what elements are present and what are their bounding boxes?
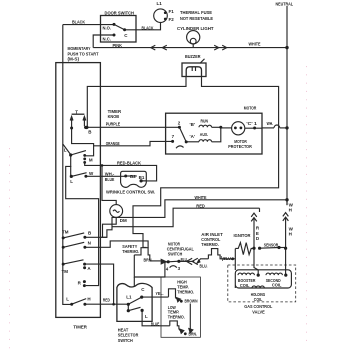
svg-text:THERMO.: THERMO. (177, 289, 194, 294)
svg-text:BLU.: BLU. (223, 256, 232, 261)
svg-text:MOMENTARY: MOMENTARY (68, 46, 91, 51)
svg-text:TM: TM (62, 230, 69, 235)
svg-text:ORANGE: ORANGE (106, 141, 120, 146)
svg-text:L: L (145, 314, 148, 319)
svg-text:BRN.: BRN. (144, 257, 153, 262)
svg-text:THERMAL FUSE: THERMAL FUSE (180, 10, 212, 15)
svg-text:BLACK: BLACK (72, 19, 86, 24)
svg-text:'B': 'B' (190, 122, 195, 127)
svg-text:PURPLE: PURPLE (106, 122, 121, 127)
svg-text:YEL.: YEL. (156, 291, 164, 296)
svg-text:H: H (87, 296, 90, 301)
svg-text:GAS CONTROL: GAS CONTROL (244, 304, 272, 309)
svg-text:THERMO.: THERMO. (168, 315, 185, 320)
svg-text:WHITE: WHITE (195, 195, 207, 200)
svg-text:TIMER: TIMER (73, 324, 87, 329)
svg-text:RED: RED (103, 298, 111, 303)
svg-text:F2: F2 (169, 17, 175, 22)
svg-text:WRINKLE CONTROL SW.: WRINKLE CONTROL SW. (106, 190, 155, 195)
svg-text:(M-S): (M-S) (68, 57, 80, 62)
svg-text:DOOR SWITCH: DOOR SWITCH (105, 11, 135, 16)
svg-text:L1: L1 (126, 294, 132, 299)
svg-text:RED-BLACK: RED-BLACK (117, 161, 142, 166)
svg-text:DM: DM (120, 218, 127, 223)
svg-text:N.O.: N.O. (103, 26, 112, 31)
svg-text:BUZZER: BUZZER (185, 54, 201, 59)
svg-text:NEUTRAL: NEUTRAL (276, 1, 294, 6)
svg-text:L: L (64, 148, 67, 153)
svg-text:AUX.: AUX. (200, 132, 209, 137)
svg-text:NOT RESETABLE: NOT RESETABLE (180, 16, 213, 21)
svg-text:TM: TM (62, 269, 69, 274)
svg-text:WH.-: WH.- (105, 171, 115, 176)
svg-text:F1: F1 (169, 9, 175, 14)
svg-text:BROWN: BROWN (185, 298, 198, 303)
svg-text:SENSOR: SENSOR (264, 242, 279, 247)
svg-text:RUN: RUN (201, 118, 209, 123)
svg-text:BLACK: BLACK (142, 26, 155, 31)
svg-text:B1: B1 (139, 175, 145, 180)
svg-text:IGNITOR: IGNITOR (234, 233, 252, 238)
svg-text:SWITCH: SWITCH (118, 338, 133, 343)
svg-text:N.C.: N.C. (103, 37, 112, 42)
svg-text:COIL: COIL (240, 283, 250, 288)
svg-text:THERMO.: THERMO. (122, 249, 139, 254)
svg-text:WH.: WH. (267, 121, 274, 126)
svg-text:COIL: COIL (272, 283, 282, 288)
svg-text:MOTOR: MOTOR (244, 106, 257, 111)
svg-text:KNOB: KNOB (108, 114, 120, 119)
svg-text:'A': 'A' (190, 134, 195, 139)
svg-text:L: L (70, 179, 73, 184)
svg-text:BLUE: BLUE (151, 321, 160, 326)
svg-text:VALVE: VALVE (252, 310, 264, 315)
svg-text:CYLINDER LIGHT: CYLINDER LIGHT (177, 26, 214, 31)
svg-text:COIL: COIL (254, 297, 263, 302)
svg-text:WHITE: WHITE (249, 41, 261, 46)
svg-text:T: T (75, 109, 78, 114)
svg-text:N: N (88, 241, 91, 246)
svg-text:H: H (289, 208, 292, 213)
svg-text:RED: RED (196, 204, 205, 209)
svg-text:'C' 1: 'C' 1 (246, 121, 257, 126)
svg-text:L1: L1 (157, 1, 163, 6)
svg-text:B2: B2 (130, 174, 136, 179)
svg-text:PROTECTOR: PROTECTOR (228, 144, 252, 149)
svg-text:PINK: PINK (113, 43, 123, 48)
svg-text:L: L (66, 297, 69, 302)
svg-text:THERMO.: THERMO. (201, 242, 219, 247)
svg-text:H: H (289, 232, 292, 237)
svg-text:E: E (256, 231, 259, 236)
svg-text:BLUE: BLUE (105, 177, 115, 182)
svg-text:M: M (89, 158, 93, 163)
svg-text:BLU.: BLU. (200, 263, 208, 268)
svg-text:BLU.: BLU. (181, 257, 188, 262)
svg-text:BRN.: BRN. (189, 332, 198, 337)
